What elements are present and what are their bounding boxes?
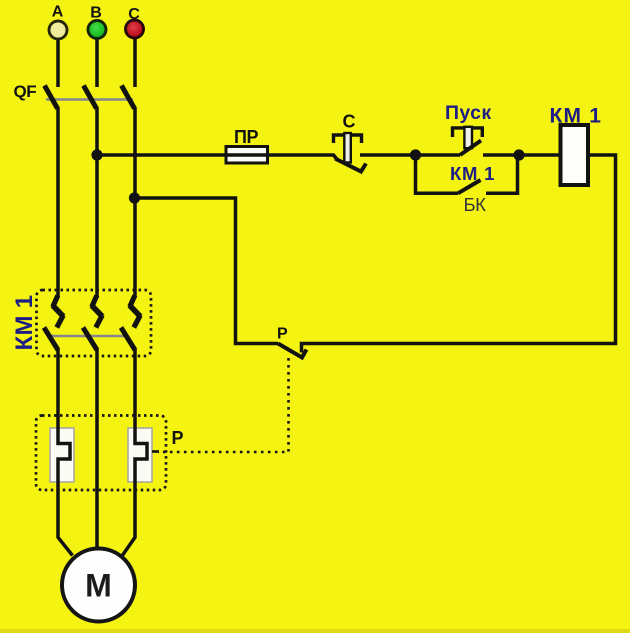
svg-text:КМ 1: КМ 1 [550, 105, 603, 128]
svg-text:M: M [85, 568, 112, 604]
svg-text:P: P [172, 428, 184, 448]
svg-text:C: C [128, 6, 140, 23]
svg-text:С: С [343, 112, 356, 132]
svg-text:КМ 1: КМ 1 [450, 163, 495, 184]
svg-text:ПР: ПР [234, 127, 258, 147]
svg-text:КМ 1: КМ 1 [11, 295, 38, 351]
svg-text:БК: БК [464, 194, 487, 215]
svg-text:Пуск: Пуск [445, 102, 492, 124]
svg-text:QF: QF [14, 82, 37, 101]
svg-text:A: A [52, 4, 64, 21]
svg-text:P: P [277, 326, 288, 343]
svg-text:B: B [90, 5, 102, 22]
